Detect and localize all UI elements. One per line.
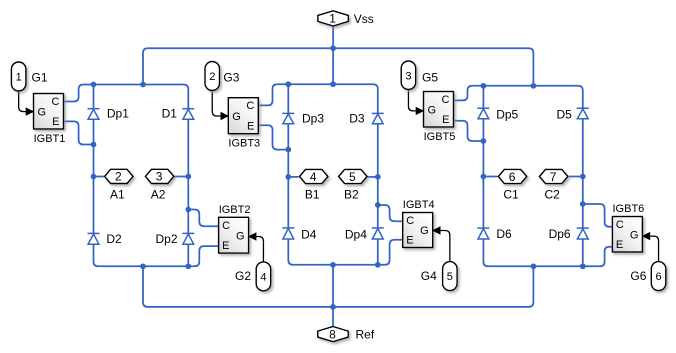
port B1 xyxy=(300,169,328,183)
svg-text:A1: A1 xyxy=(110,187,125,201)
node leg B right-rail bottom junction xyxy=(375,262,381,268)
wire gate wire G1 to IGBT1 xyxy=(19,91,27,112)
svg-text:C2: C2 xyxy=(544,187,560,201)
svg-text:2: 2 xyxy=(209,71,215,83)
wire bottom bus with both end risers xyxy=(143,266,533,307)
svg-text:G: G xyxy=(236,230,245,242)
wire gate wire G4 to IGBT4 xyxy=(440,231,450,262)
port B2 xyxy=(339,169,367,183)
svg-text:IGBT4: IGBT4 xyxy=(403,199,435,211)
wire gate wire G6 to IGBT6 xyxy=(649,236,658,262)
node leg A bus drop junction top xyxy=(140,82,146,88)
svg-text:3: 3 xyxy=(156,170,163,184)
IGBT block IGBT5 xyxy=(424,92,454,128)
svg-text:G: G xyxy=(428,104,437,116)
port G1 xyxy=(11,62,26,91)
svg-text:E: E xyxy=(406,235,413,247)
svg-text:G2: G2 xyxy=(235,269,251,283)
node Vss tap on top bus xyxy=(330,45,336,51)
svg-text:6: 6 xyxy=(509,170,516,184)
svg-text:5: 5 xyxy=(349,170,356,184)
svg-text:C: C xyxy=(442,94,450,106)
IGBT block IGBT2 xyxy=(219,217,249,253)
svg-text:2: 2 xyxy=(115,170,122,184)
node leg A A1 tap xyxy=(91,174,97,180)
svg-text:G: G xyxy=(38,106,47,118)
wire leg C lower IGBT C wire xyxy=(583,204,613,227)
wire leg C top rail header + right rail xyxy=(472,86,583,266)
diode Dp2 xyxy=(182,233,194,244)
svg-text:6: 6 xyxy=(655,271,661,283)
svg-text:Dp3: Dp3 xyxy=(302,111,324,125)
svg-text:IGBT3: IGBT3 xyxy=(228,138,260,150)
svg-text:D1: D1 xyxy=(162,106,178,120)
diode Dp6 xyxy=(577,228,589,239)
wire gate wire G5 to IGBT5 xyxy=(408,90,416,111)
diode D4 xyxy=(282,228,294,239)
svg-text:G: G xyxy=(420,225,429,237)
arrowhead into IGBT4 G pin xyxy=(432,226,441,234)
svg-text:G3: G3 xyxy=(223,71,239,85)
svg-text:Dp1: Dp1 xyxy=(107,106,129,120)
diode Dp3 xyxy=(282,113,294,123)
port G6 xyxy=(651,262,666,291)
wire leg C stub from C2 xyxy=(569,176,583,178)
wire leg A left rail + bottom wire + lower IGBT E wire xyxy=(94,85,219,267)
diode Dp5 xyxy=(477,108,489,119)
svg-text:E: E xyxy=(247,121,254,133)
wire leg B bottom to bottom bus xyxy=(332,265,334,307)
svg-text:C: C xyxy=(52,96,60,108)
svg-text:E: E xyxy=(222,240,229,252)
node leg A right-rail bottom junction xyxy=(185,263,191,269)
wire leg B top rail header + right rail xyxy=(277,84,378,265)
IGBT block IGBT3 xyxy=(228,98,258,134)
node leg C right-rail bottom junction xyxy=(580,263,586,269)
svg-text:G4: G4 xyxy=(421,269,437,283)
svg-text:D3: D3 xyxy=(349,111,365,125)
svg-text:3: 3 xyxy=(405,70,411,82)
port C2 xyxy=(539,169,567,183)
diode Dp4 xyxy=(372,228,384,239)
node leg B bottom tee xyxy=(330,262,336,268)
wire leg B upper IGBT C wire xyxy=(258,84,277,105)
node leg A bus drop junction bottom xyxy=(140,263,146,269)
wire leg A upper IGBT E wire xyxy=(64,121,94,144)
port G4 xyxy=(443,262,458,291)
svg-text:Ref: Ref xyxy=(356,328,375,342)
diode D3 xyxy=(372,113,384,123)
wire Ref port riser xyxy=(332,307,334,327)
node leg B lower C junction xyxy=(375,202,381,208)
arrowhead into IGBT5 G pin xyxy=(416,107,425,115)
svg-text:Dp5: Dp5 xyxy=(496,107,518,121)
node leg C bus drop junction top xyxy=(531,83,537,89)
svg-text:IGBT1: IGBT1 xyxy=(34,133,66,145)
IGBT block IGBT1 xyxy=(34,94,64,130)
svg-text:C: C xyxy=(406,215,414,227)
node leg C C1 tap xyxy=(481,174,487,180)
wire leg B stub to B1 xyxy=(288,176,298,178)
wire leg B left rail + bottom wire + lower IGBT E wire xyxy=(288,84,402,265)
node leg B B2 tap xyxy=(375,174,381,180)
wire Vss port drop to leg B xyxy=(332,26,334,84)
arrowhead into IGBT1 G pin xyxy=(26,107,35,115)
svg-text:E: E xyxy=(442,114,449,126)
port G2 xyxy=(256,262,271,291)
wire leg A stub from A2 xyxy=(174,176,189,178)
svg-text:G5: G5 xyxy=(422,71,438,85)
svg-text:C: C xyxy=(616,219,624,231)
diode D1 xyxy=(182,109,194,120)
node leg B left-rail top junction xyxy=(285,81,291,87)
IGBT block IGBT4 xyxy=(403,213,433,248)
svg-text:C: C xyxy=(246,100,254,112)
port Vss (net Vss) xyxy=(318,11,349,26)
svg-text:B2: B2 xyxy=(344,187,359,201)
diode D5 xyxy=(577,108,589,119)
wire leg C left rail + bottom wire + lower IGBT E wire xyxy=(483,86,612,266)
svg-text:C1: C1 xyxy=(503,187,519,201)
node Vss drop onto leg B header xyxy=(330,81,336,87)
svg-text:4: 4 xyxy=(310,170,317,184)
node leg C left-rail top junction xyxy=(481,83,487,89)
svg-text:4: 4 xyxy=(260,271,266,283)
port A1 xyxy=(105,169,133,183)
wire leg C upper IGBT E wire xyxy=(454,121,484,141)
svg-text:5: 5 xyxy=(447,271,453,283)
diode D6 xyxy=(477,228,489,239)
svg-text:B1: B1 xyxy=(305,187,320,201)
node leg B upper E junction xyxy=(285,147,291,153)
node leg A lower C junction xyxy=(185,207,191,213)
wire gate wire G2 to IGBT2 xyxy=(256,237,264,262)
svg-text:Vss: Vss xyxy=(354,12,374,26)
node leg C bus drop junction bottom xyxy=(531,263,537,269)
svg-text:1: 1 xyxy=(16,72,22,84)
wire leg B lower IGBT C wire xyxy=(378,205,403,221)
IGBT block IGBT6 xyxy=(612,217,642,253)
port A2 xyxy=(145,169,173,183)
node leg A left-rail top junction xyxy=(91,82,97,88)
arrowhead into IGBT2 G pin xyxy=(248,232,257,240)
svg-text:8: 8 xyxy=(329,327,336,341)
svg-text:G: G xyxy=(232,111,241,123)
svg-text:E: E xyxy=(52,116,59,128)
diode D2 xyxy=(88,233,100,244)
port G3 xyxy=(205,62,220,91)
port C1 xyxy=(498,169,526,183)
wire leg B stub from B2 xyxy=(367,176,378,178)
wire leg A upper IGBT C wire xyxy=(64,85,84,102)
svg-text:G6: G6 xyxy=(630,269,646,283)
node leg C upper E junction xyxy=(481,138,487,144)
svg-text:7: 7 xyxy=(550,170,557,184)
wire leg A stub to A1 xyxy=(94,176,105,178)
node leg C lower C junction xyxy=(580,201,586,207)
svg-text:C: C xyxy=(222,220,230,232)
svg-text:1: 1 xyxy=(329,12,336,26)
svg-text:E: E xyxy=(616,239,623,251)
wire leg A lower IGBT C wire xyxy=(188,210,218,227)
svg-text:D4: D4 xyxy=(301,227,317,241)
port G5 xyxy=(401,61,416,90)
svg-text:A2: A2 xyxy=(151,187,166,201)
node leg A upper E junction xyxy=(91,142,97,148)
node Ref tap on bottom bus xyxy=(330,304,336,310)
wire leg C upper IGBT C wire xyxy=(454,86,473,101)
diode Dp1 xyxy=(88,109,100,120)
svg-text:G: G xyxy=(630,229,639,241)
node leg B B1 tap xyxy=(285,174,291,180)
svg-text:Dp2: Dp2 xyxy=(156,232,178,246)
svg-text:IGBT6: IGBT6 xyxy=(613,203,645,215)
svg-text:D2: D2 xyxy=(106,232,122,246)
wire top bus with both end drops xyxy=(143,48,533,86)
svg-text:Dp4: Dp4 xyxy=(345,227,367,241)
port Ref (net Ref) xyxy=(318,327,349,342)
svg-text:G1: G1 xyxy=(32,71,48,85)
node leg A A2 tap xyxy=(185,174,191,180)
svg-text:IGBT2: IGBT2 xyxy=(219,204,251,216)
wire gate wire G3 to IGBT3 xyxy=(212,91,221,117)
svg-text:IGBT5: IGBT5 xyxy=(424,131,456,143)
node leg C C2 tap xyxy=(580,174,586,180)
wire leg B upper IGBT E wire xyxy=(258,125,288,149)
svg-text:D5: D5 xyxy=(557,107,573,121)
wire leg A top rail header + right rail xyxy=(83,85,188,267)
svg-text:Dp6: Dp6 xyxy=(549,227,571,241)
svg-text:D6: D6 xyxy=(496,227,512,241)
arrowhead into IGBT6 G pin xyxy=(642,232,651,240)
arrowhead into IGBT3 G pin xyxy=(221,112,230,120)
wire leg C stub to C1 xyxy=(483,176,497,178)
